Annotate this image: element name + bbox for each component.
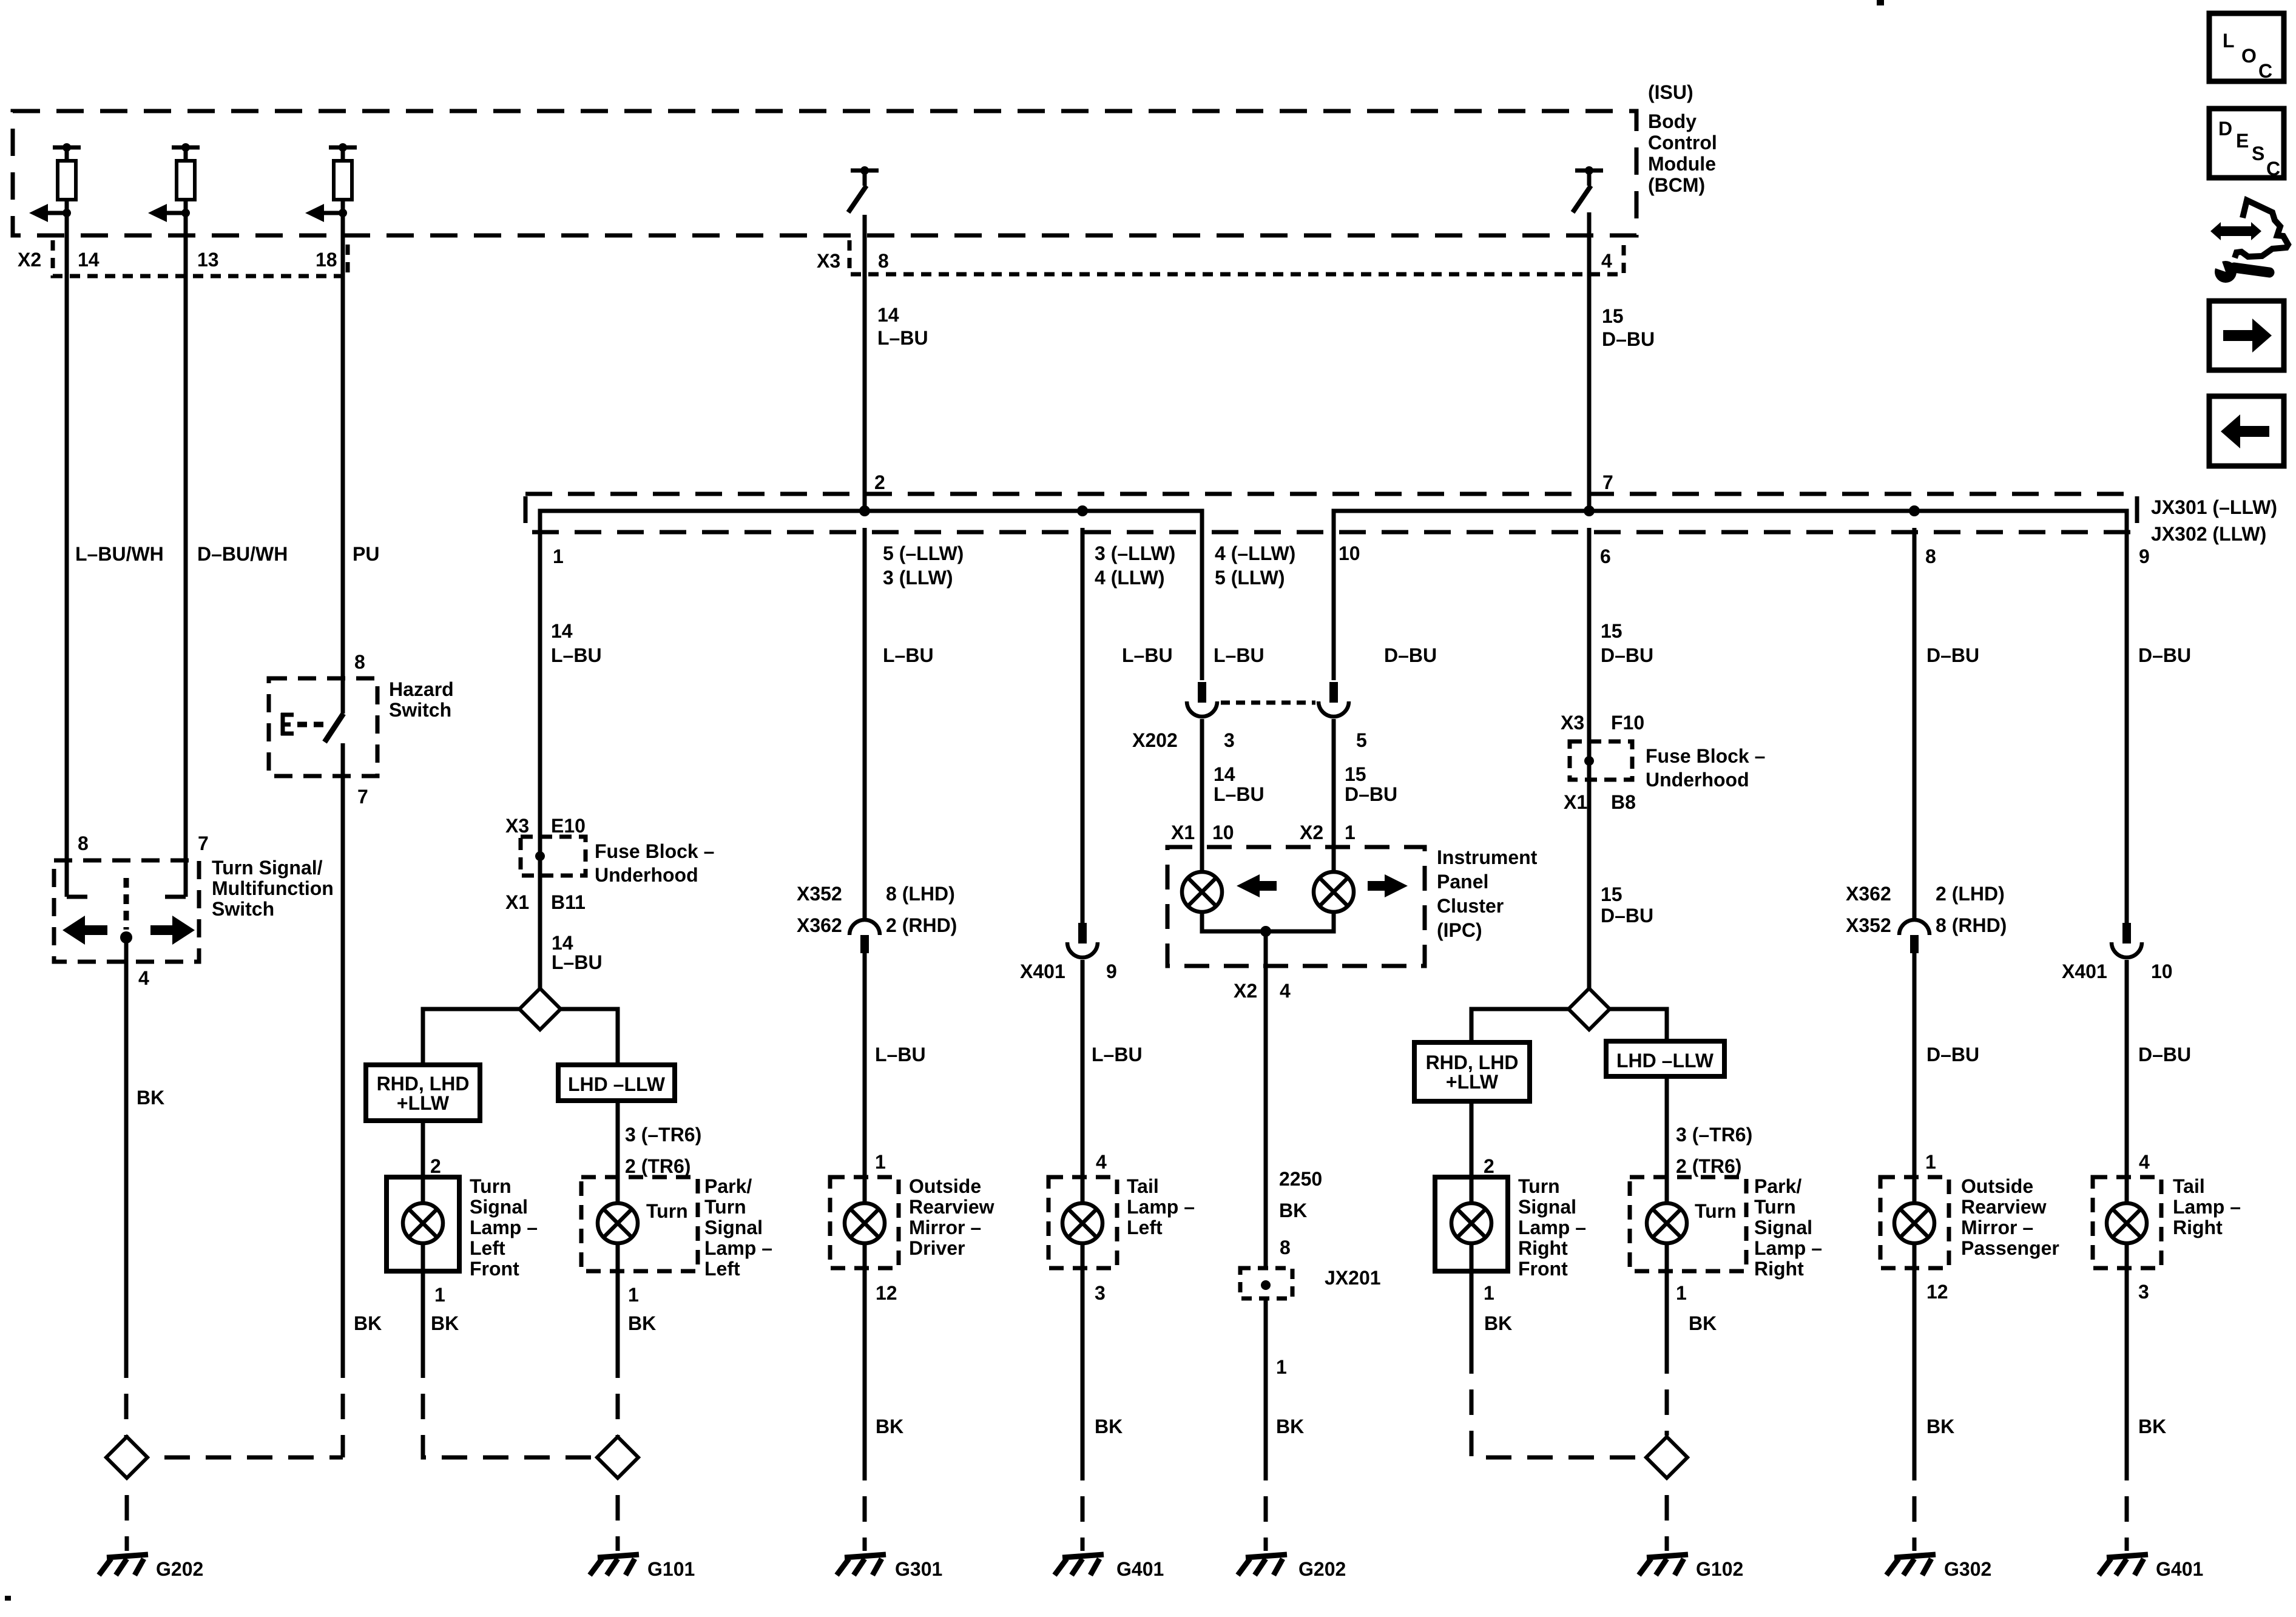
svg-text:Fuse Block –: Fuse Block – — [595, 840, 714, 862]
park/turn signal lamp left label — [704, 1175, 772, 1280]
svg-text:Driver: Driver — [909, 1237, 965, 1259]
park/turn signal lamp right bulb — [1647, 1177, 1687, 1271]
outside rearview mirror driver bulb — [845, 1177, 885, 1268]
svg-text:8: 8 — [1280, 1237, 1291, 1258]
svg-text:Fuse Block –: Fuse Block – — [1646, 745, 1765, 767]
pin 1 label (passenger mirror) — [1925, 1151, 1936, 1173]
svg-text:Turn: Turn — [1518, 1175, 1560, 1197]
svg-text:12: 12 — [876, 1282, 897, 1304]
IPC output labels X2 4 — [1234, 980, 1291, 1002]
svg-text:4: 4 — [1096, 1151, 1107, 1173]
svg-text:B8: B8 — [1611, 791, 1636, 813]
svg-text:D–BU: D–BU — [1926, 1044, 1979, 1065]
resistor R1 (BCM internal pull-up, output arrow) — [29, 143, 81, 222]
wire L-BU/WH from BCM X2-14 to turn signal switch pin 8 — [67, 213, 87, 897]
svg-text:2 (RHD): 2 (RHD) — [886, 914, 957, 936]
wire 15 D-BU X202 to IPC X2-1 — [1332, 719, 1336, 847]
wire label D-BU (passenger mirror) — [1926, 1044, 1979, 1065]
svg-text:BK: BK — [1095, 1416, 1123, 1437]
svg-text:+LLW: +LLW — [1446, 1071, 1499, 1093]
pin 1 and BK label (park/turn lamp right) — [1676, 1282, 1717, 1334]
wire splice to RHD,LHD+LLW branch (right) — [1471, 1009, 1568, 1042]
connector X202 labels — [1132, 729, 1367, 751]
svg-text:1: 1 — [1276, 1356, 1287, 1378]
IPC pin labels X1 10 / X2 1 — [1171, 822, 1356, 843]
turn signal lamp right front solid box — [1435, 1177, 1508, 1271]
IPC right turn indicator bulb — [1314, 847, 1354, 912]
ground G301 — [837, 1555, 942, 1580]
svg-text:G401: G401 — [2156, 1558, 2203, 1580]
svg-text:JX302 (LLW): JX302 (LLW) — [2151, 523, 2266, 545]
instrument panel cluster label — [1437, 846, 1538, 941]
ground G101 — [590, 1555, 695, 1580]
pin 2 label (turn signal lamp right front) — [1484, 1155, 1494, 1177]
svg-text:4 (–LLW): 4 (–LLW) — [1215, 542, 1295, 564]
svg-text:X352: X352 — [797, 883, 842, 905]
svg-text:2 (TR6): 2 (TR6) — [625, 1155, 690, 1177]
wire label 14 L-BU (below X3-8) — [877, 304, 928, 349]
svg-text:15: 15 — [1601, 620, 1622, 642]
turn signal switch pins 8 and 7 — [78, 832, 209, 854]
svg-text:7: 7 — [357, 786, 368, 808]
svg-text:Switch: Switch — [389, 699, 451, 721]
wire BK below park/turn lamp right to splice — [1665, 1271, 1669, 1436]
outside rearview mirror passenger bulb — [1894, 1177, 1934, 1268]
svg-text:7: 7 — [198, 832, 209, 854]
svg-text:Right: Right — [2173, 1217, 2223, 1238]
svg-text:Front: Front — [1518, 1258, 1568, 1280]
svg-text:18: 18 — [316, 249, 337, 271]
svg-text:E10: E10 — [551, 815, 586, 837]
svg-text:L–BU/WH: L–BU/WH — [75, 543, 164, 565]
inline connector X352/X362 labels (driver mirror) — [797, 883, 957, 936]
svg-text:X2: X2 — [18, 249, 41, 271]
svg-text:S: S — [2252, 143, 2264, 164]
svg-text:4: 4 — [1280, 980, 1291, 1002]
svg-text:BK: BK — [1484, 1312, 1512, 1334]
wire BK below turn signal lamp right front — [1471, 1271, 1644, 1457]
wire label D-BU (tail lamp right) — [2138, 1044, 2191, 1065]
svg-text:Turn: Turn — [1695, 1200, 1737, 1222]
svg-text:10: 10 — [1212, 822, 1234, 843]
wire BK below tail lamp left to ground G401 — [1081, 1268, 1085, 1551]
svg-text:Signal: Signal — [1518, 1196, 1576, 1218]
svg-text:X362: X362 — [797, 914, 842, 936]
Turn label inside park/turn lamp left box — [646, 1200, 688, 1222]
wire to turn signal lamp right front pin 2 — [1470, 1101, 1474, 1177]
IPC internal common return wire — [1202, 912, 1334, 966]
svg-text:3 (–LLW): 3 (–LLW) — [1095, 542, 1175, 564]
connector X401 pin 9 labels — [1020, 960, 1117, 982]
wire to park/turn signal lamp right pin — [1665, 1076, 1669, 1177]
svg-text:5 (LLW): 5 (LLW) — [1215, 567, 1285, 589]
svg-text:D–BU: D–BU — [1384, 644, 1437, 666]
svg-text:2: 2 — [430, 1155, 441, 1177]
turn signal lamp right front label — [1518, 1175, 1586, 1280]
pin 12 and BK label (passenger mirror) — [1926, 1281, 1954, 1437]
turn signal lamp left front label — [470, 1175, 538, 1280]
splice (left front lamp feed) — [519, 988, 561, 1030]
svg-text:4: 4 — [2139, 1151, 2150, 1173]
inline connector X401 (tail lamp left) — [1067, 923, 1098, 957]
svg-text:L: L — [2223, 30, 2235, 52]
wire BK below passenger mirror to ground G302 — [1913, 1268, 1917, 1551]
svg-text:10: 10 — [1339, 542, 1360, 564]
BCM right-turn output switch — [1573, 166, 1603, 212]
svg-text:L–BU: L–BU — [1214, 783, 1264, 805]
wire label 14 L-BU (to front lamps) — [552, 932, 603, 973]
JX201 pin 8 label — [1280, 1237, 1291, 1258]
connector repair icon (double arrow, wrench, outline) — [2210, 200, 2288, 283]
svg-text:15: 15 — [1345, 763, 1366, 785]
svg-text:X401: X401 — [1020, 960, 1065, 982]
connector X202 left half (pin 3) — [1187, 682, 1217, 717]
svg-text:X3: X3 — [1561, 712, 1584, 734]
tail lamp right label — [2173, 1175, 2241, 1238]
turn signal switch label — [212, 857, 334, 920]
svg-text:G401: G401 — [1116, 1558, 1164, 1580]
connector X3 (BCM) dotted bracket with pins 8 and 4 — [817, 240, 1624, 274]
svg-text:BK: BK — [1926, 1416, 1954, 1437]
svg-text:+LLW: +LLW — [397, 1092, 450, 1114]
wire D-BU to outside mirror passenger lamp — [1913, 953, 1917, 1177]
pin 1 and BK label (park/turn lamp left) — [628, 1284, 656, 1334]
right turn icon box — [2209, 301, 2284, 370]
svg-text:2 (LHD): 2 (LHD) — [1936, 883, 2005, 905]
wire label 15 D-BU (below X3-4) — [1602, 305, 1655, 350]
svg-text:2250: 2250 — [1279, 1168, 1322, 1190]
svg-text:E: E — [2236, 130, 2249, 152]
svg-text:Park/: Park/ — [1754, 1175, 1801, 1197]
svg-text:9: 9 — [1106, 960, 1117, 982]
Body Control Module (BCM) dashed box — [13, 111, 1636, 235]
wire BK from turn signal switch pin 4 to splice — [124, 937, 129, 1437]
wire label 15 D-BU (to IPC) — [1345, 763, 1397, 805]
wire L-BU junction band to outside rearview mirror driver — [863, 528, 867, 920]
svg-text:D–BU: D–BU — [1601, 905, 1653, 927]
svg-text:BK: BK — [354, 1312, 382, 1334]
svg-text:3: 3 — [2138, 1281, 2149, 1303]
svg-text:L–BU: L–BU — [552, 951, 603, 973]
svg-text:4: 4 — [1601, 250, 1612, 272]
svg-text:D–BU: D–BU — [1602, 328, 1655, 350]
svg-text:BK: BK — [876, 1416, 903, 1437]
svg-text:Instrument: Instrument — [1437, 846, 1538, 868]
pin 2 label (turn signal lamp left front) — [430, 1155, 441, 1177]
svg-text:Lamp –: Lamp – — [1127, 1196, 1195, 1218]
outside rearview mirror passenger label — [1961, 1175, 2059, 1259]
wire to park/turn signal lamp left pin — [616, 1101, 620, 1177]
LOC icon box — [2209, 13, 2284, 82]
tail lamp left label — [1127, 1175, 1195, 1238]
svg-text:Underhood: Underhood — [595, 864, 698, 886]
svg-text:G102: G102 — [1696, 1558, 1743, 1580]
junction block labels JX301 JX302 — [2151, 496, 2277, 545]
wire 2250 BK from IPC X2-4 to JX201 — [1264, 966, 1268, 1268]
svg-text:BK: BK — [628, 1312, 656, 1334]
svg-text:Mirror –: Mirror – — [1961, 1217, 2033, 1238]
svg-text:7: 7 — [1602, 471, 1613, 493]
svg-text:BK: BK — [431, 1312, 459, 1334]
wire label 2250 BK — [1279, 1168, 1322, 1221]
outside rearview mirror passenger dashed box — [1880, 1177, 1949, 1268]
wire BK below driver mirror to ground G301 — [863, 1268, 867, 1551]
svg-text:Lamp –: Lamp – — [470, 1217, 538, 1238]
wire 14 L-BU from BCM X3-8 to junction band pin 2 — [863, 215, 867, 511]
option box RHD, LHD +LLW (left) — [366, 1065, 480, 1121]
svg-text:BK: BK — [1689, 1312, 1717, 1334]
wire L-BU junction band pin 4 to X202 pin 3 — [1200, 528, 1204, 680]
wire BK below park/turn lamp left to splice — [616, 1271, 620, 1437]
pin 12 and BK label (driver mirror) — [876, 1282, 903, 1437]
svg-text:Left: Left — [704, 1258, 740, 1280]
IPC left turn indicator bulb — [1182, 847, 1222, 912]
svg-text:X352: X352 — [1846, 914, 1891, 936]
wire splice down to ground G102 — [1665, 1479, 1669, 1551]
wire BK below tail lamp right to ground G401 — [2125, 1268, 2129, 1551]
svg-text:1: 1 — [628, 1284, 639, 1306]
svg-text:Multifunction: Multifunction — [212, 877, 334, 899]
splice to G102 — [1646, 1437, 1687, 1478]
svg-text:D–BU: D–BU — [1601, 644, 1653, 666]
svg-text:8: 8 — [1925, 545, 1936, 567]
wire splice to LHD-LLW branch (left) — [561, 1009, 618, 1065]
wire label L-BU (driver mirror) — [875, 1044, 926, 1065]
park/turn signal lamp right dashed box — [1630, 1177, 1746, 1271]
wire 14 L-BU junction band pin 1 down to fuse block — [538, 528, 542, 988]
svg-text:D: D — [2218, 118, 2232, 140]
wire label PU — [353, 543, 379, 565]
IPC left turn arrow — [1237, 874, 1277, 897]
svg-text:L–BU: L–BU — [1092, 1044, 1143, 1065]
svg-text:L–BU: L–BU — [875, 1044, 926, 1065]
outside rearview mirror driver label — [909, 1175, 994, 1259]
svg-text:1: 1 — [875, 1151, 886, 1173]
left turn icon box — [2209, 396, 2284, 466]
svg-text:Passenger: Passenger — [1961, 1237, 2059, 1259]
svg-text:(BCM): (BCM) — [1648, 174, 1705, 196]
wire 14 L-BU X202 to IPC X1-10 — [1200, 719, 1204, 847]
svg-text:BK: BK — [2138, 1416, 2166, 1437]
svg-text:C: C — [2258, 60, 2272, 82]
svg-text:14: 14 — [78, 249, 100, 271]
svg-text:G202: G202 — [156, 1558, 203, 1580]
svg-text:Panel: Panel — [1437, 871, 1488, 893]
wire to turn signal lamp left front pin 2 — [421, 1121, 425, 1177]
turn signal lamp right front bulb — [1451, 1177, 1491, 1271]
svg-text:1: 1 — [1484, 1282, 1494, 1304]
JX201 label — [1325, 1267, 1381, 1289]
pin labels 3 (-TR6) 2 (TR6) (park/turn lamp left) — [625, 1124, 701, 1177]
wire splice down to ground G101 — [616, 1479, 620, 1551]
option box LHD -LLW (right) — [1606, 1041, 1724, 1076]
svg-text:RHD, LHD: RHD, LHD — [1426, 1052, 1519, 1073]
instrument panel cluster dashed box — [1167, 847, 1425, 966]
fuse block underhood label (right) — [1646, 745, 1765, 791]
svg-text:Tail: Tail — [1127, 1175, 1159, 1197]
connector X401 pin 10 labels (right) — [2062, 960, 2173, 982]
svg-text:5 (–LLW): 5 (–LLW) — [883, 542, 964, 564]
hazard switch pin 8 — [354, 651, 365, 673]
pin 4 label (tail lamp left) — [1096, 1151, 1107, 1173]
resistor R3 (BCM internal pull-up, output arrow) — [305, 143, 357, 222]
pin 1 and BK label (turn signal lamp left front) — [431, 1284, 459, 1334]
wire PU/BK from hazard switch pin 7 down — [341, 743, 345, 1457]
inline connector symbol (passenger mirror) — [1899, 920, 1930, 953]
hazard switch blade — [325, 714, 343, 742]
svg-text:2 (TR6): 2 (TR6) — [1676, 1155, 1741, 1177]
tail lamp left bulb — [1062, 1177, 1102, 1268]
svg-text:L–BU: L–BU — [883, 644, 934, 666]
park/turn signal lamp left dashed box — [581, 1177, 698, 1271]
svg-text:Body: Body — [1648, 110, 1697, 132]
wire label 15 D-BU (to front right lamps) — [1601, 883, 1653, 927]
fuse E10 connector labels X3 / E10 — [505, 815, 586, 837]
svg-text:Tail: Tail — [2173, 1175, 2205, 1197]
svg-text:15: 15 — [1601, 883, 1622, 905]
option box RHD, LHD +LLW (right) — [1414, 1042, 1530, 1101]
svg-text:Outside: Outside — [1961, 1175, 2033, 1197]
junction block internal bus (left turn, L-BU net) — [540, 505, 1202, 528]
svg-text:8: 8 — [78, 832, 89, 854]
svg-text:X2: X2 — [1300, 822, 1323, 843]
svg-text:G301: G301 — [895, 1558, 942, 1580]
Turn label inside park/turn lamp right box — [1695, 1200, 1737, 1222]
wire D-BU to tail lamp right — [2125, 960, 2129, 1177]
svg-text:D–BU: D–BU — [2138, 644, 2191, 666]
svg-text:Mirror –: Mirror – — [909, 1217, 981, 1238]
svg-text:X1: X1 — [1564, 791, 1587, 813]
page registration tick (top right) — [1877, 0, 1884, 5]
junction block JX301/JX302 dashed band — [525, 494, 2137, 532]
svg-text:14: 14 — [552, 932, 573, 954]
svg-text:15: 15 — [1602, 305, 1624, 327]
hazard switch pin 7 — [357, 786, 368, 808]
svg-text:5: 5 — [1356, 729, 1367, 751]
inline connector X401 (tail lamp right) — [2112, 923, 2142, 957]
turn signal switch left arrow — [62, 916, 107, 945]
svg-text:X401: X401 — [2062, 960, 2107, 982]
ground G401 (right) — [2099, 1555, 2203, 1580]
svg-text:1: 1 — [1345, 822, 1356, 843]
svg-text:Turn: Turn — [646, 1200, 688, 1222]
wire L-BU junction band to tail lamp left — [1081, 528, 1085, 923]
tail lamp left dashed box — [1048, 1177, 1117, 1268]
svg-text:Turn: Turn — [704, 1196, 746, 1218]
svg-text:Rearview: Rearview — [909, 1196, 994, 1218]
inline connector symbol (driver mirror) — [849, 920, 880, 953]
fuse block underhood label (left) — [595, 840, 714, 886]
svg-text:3 (–TR6): 3 (–TR6) — [1676, 1124, 1752, 1146]
wire L-BU to tail lamp left — [1081, 960, 1085, 1177]
wire label BK (turn signal switch ground) — [137, 1087, 164, 1109]
svg-text:Cluster: Cluster — [1437, 895, 1504, 917]
svg-text:JX201: JX201 — [1325, 1267, 1381, 1289]
inline connector X362/X352 labels (passenger mirror) — [1846, 883, 2007, 936]
svg-text:L–BU: L–BU — [1214, 644, 1264, 666]
svg-text:4 (LLW): 4 (LLW) — [1095, 567, 1165, 589]
svg-text:Right: Right — [1518, 1237, 1568, 1259]
wire BK below turn signal lamp left front — [423, 1271, 597, 1457]
svg-text:X3: X3 — [817, 250, 840, 272]
svg-text:RHD, LHD: RHD, LHD — [377, 1073, 470, 1095]
svg-text:(ISU): (ISU) — [1648, 81, 1693, 103]
junction band pin 2 label — [874, 471, 885, 493]
park/turn signal lamp left bulb — [598, 1177, 638, 1271]
svg-text:X2: X2 — [1234, 980, 1257, 1002]
svg-text:13: 13 — [197, 249, 219, 271]
svg-text:Lamp –: Lamp – — [1754, 1237, 1822, 1259]
svg-text:X362: X362 — [1846, 883, 1891, 905]
connector X202 right half (pin 5) — [1319, 682, 1349, 717]
svg-text:10: 10 — [2151, 960, 2173, 982]
svg-text:1: 1 — [553, 545, 564, 567]
fuse B11 connector labels X1 / B11 — [505, 891, 586, 913]
svg-text:Hazard: Hazard — [389, 678, 454, 700]
svg-text:8 (RHD): 8 (RHD) — [1936, 914, 2007, 936]
connector X2 (BCM) dotted bracket with pins 14 13 18 — [18, 240, 348, 276]
svg-text:Front: Front — [470, 1258, 519, 1280]
BCM label (ISU) Body Control Module (BCM) — [1648, 81, 1717, 196]
BCM left-turn output switch — [848, 166, 879, 212]
svg-text:Lamp –: Lamp – — [704, 1237, 772, 1259]
svg-text:3 (LLW): 3 (LLW) — [883, 567, 953, 589]
svg-text:14: 14 — [551, 620, 573, 642]
svg-text:6: 6 — [1600, 545, 1611, 567]
resistor R2 (BCM internal pull-up, output arrow) — [148, 143, 200, 222]
svg-text:F10: F10 — [1611, 712, 1644, 734]
svg-text:1: 1 — [1676, 1282, 1687, 1304]
connector X202 dotted link — [1221, 701, 1315, 705]
junction band pin 7 label — [1602, 471, 1613, 493]
pin labels 3 (-TR6) 2 (TR6) (park/turn lamp right) — [1676, 1124, 1752, 1177]
svg-text:Park/: Park/ — [704, 1175, 752, 1197]
svg-text:(IPC): (IPC) — [1437, 919, 1482, 941]
pin 4 label (tail lamp right) — [2139, 1151, 2150, 1173]
svg-text:D–BU: D–BU — [2138, 1044, 2191, 1065]
ground G401 (left) — [1055, 1555, 1164, 1580]
page mark (bottom left) — [5, 1596, 11, 1601]
svg-text:Turn: Turn — [1754, 1196, 1796, 1218]
svg-text:4: 4 — [138, 967, 149, 989]
svg-text:1: 1 — [1925, 1151, 1936, 1173]
svg-text:L–BU: L–BU — [551, 644, 602, 666]
wire label D-BU/WH — [197, 543, 288, 565]
wire color labels below junction band — [551, 620, 2191, 666]
hazard switch actuator E symbol — [281, 713, 294, 735]
svg-text:D–BU/WH: D–BU/WH — [197, 543, 288, 565]
park/turn signal lamp right label — [1754, 1175, 1822, 1280]
svg-text:O: O — [2241, 45, 2257, 67]
ground G202 (left) — [99, 1555, 203, 1580]
wire 15 D-BU junction band pin 6 down to fuse F10 — [1587, 528, 1592, 988]
svg-text:14: 14 — [1214, 763, 1235, 785]
svg-text:8: 8 — [878, 250, 889, 272]
wire BK from JX201 to ground G202 (middle) — [1264, 1298, 1268, 1551]
pin 1 and BK label (turn signal lamp right front) — [1484, 1282, 1512, 1334]
pin 3 and BK label (tail lamp right) — [2138, 1281, 2166, 1437]
svg-text:Rearview: Rearview — [1961, 1196, 2047, 1218]
wire label L-BU/WH — [75, 543, 164, 565]
wire label BK (hazard ground wire) — [354, 1312, 382, 1334]
wire D-BU junction band pin 10 to X202 pin 5 — [1332, 528, 1336, 680]
svg-text:BK: BK — [137, 1087, 164, 1109]
fuse B8 connector labels X1 / B8 — [1564, 791, 1636, 813]
svg-text:BK: BK — [1279, 1200, 1307, 1221]
splice to G202 (left) — [106, 1437, 147, 1478]
junction connector JX201 dashed box — [1240, 1268, 1292, 1298]
hazard switch mechanical dashed link — [297, 722, 328, 727]
